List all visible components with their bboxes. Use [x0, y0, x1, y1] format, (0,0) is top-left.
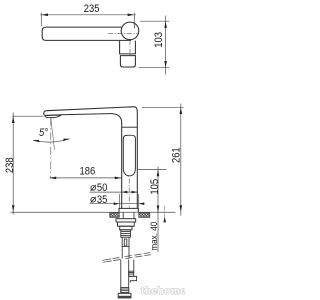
dimension diameter 50: [90, 191, 138, 193]
washer under counter: [116, 219, 136, 222]
mounting nut: [118, 222, 135, 226]
top view right extension over circle: [133, 22, 135, 28]
supply tube lower: [121, 260, 129, 294]
svg-text:235: 235: [84, 3, 100, 15]
top view swivel circle: [121, 22, 139, 40]
dimension 238: [12, 113, 43, 215]
side view flange base: [119, 208, 138, 212]
outlet centerline: [50, 118, 52, 178]
supply tube upper: [122, 237, 129, 258]
counter top line: [11, 211, 176, 213]
hose break dashes: [102, 253, 151, 263]
bottom foot: [118, 293, 131, 298]
side view spout and body outline: [44, 107, 138, 209]
threaded section: [121, 230, 131, 237]
counter hatch right: [139, 213, 150, 218]
top view handle box upper segment: [120, 41, 136, 54]
side view aerator lip: [45, 115, 61, 117]
shank through counter: [123, 212, 134, 218]
svg-text:105: 105: [149, 179, 161, 195]
outlet 5 degree tilted axis: [51, 118, 55, 150]
svg-text:5°: 5°: [39, 128, 48, 140]
top view horizontal centerline: [108, 33, 138, 35]
top view handle box lower segment: [120, 56, 135, 67]
svg-text:thehome: thehome: [141, 285, 185, 297]
counter hatch left: [110, 213, 119, 218]
lower thread block: [121, 288, 129, 293]
svg-text:50: 50: [97, 183, 108, 195]
body centerline: [128, 179, 130, 208]
nut step: [120, 226, 132, 230]
dimension max 40: [164, 206, 166, 222]
side hose nipple: [129, 260, 137, 283]
5 degree arc: [33, 139, 70, 142]
svg-text:261: 261: [171, 147, 183, 163]
dimension 235: [40, 13, 136, 29]
top view vertical centerline: [129, 41, 131, 57]
svg-text:186: 186: [80, 166, 96, 178]
svg-text:238: 238: [5, 157, 17, 173]
side view handle capsule: [123, 135, 135, 176]
dimension diameter 35: [90, 194, 143, 208]
dimension 105: [138, 167, 167, 253]
svg-text:max. 40: max. 40: [149, 222, 160, 251]
dimension 186: [50, 177, 122, 179]
dimension 261: [142, 104, 184, 216]
side view swivel ring line: [122, 126, 138, 128]
svg-text:103: 103: [154, 32, 166, 48]
svg-text:35: 35: [97, 194, 108, 206]
top view spout lever body: [42, 27, 131, 40]
dimension 103: [139, 16, 169, 75]
